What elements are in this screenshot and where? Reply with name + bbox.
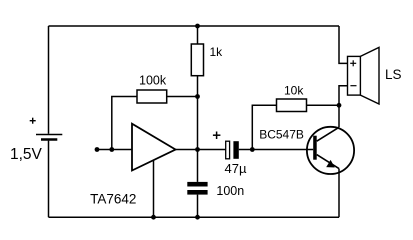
wire cap to base [239,149,313,151]
svg-text:BC547B: BC547B [259,128,304,142]
capacitor 47u left plate [226,141,230,159]
speaker LS cone [360,47,379,104]
wire bottom rail [49,216,340,218]
node base / 10k junction [250,147,255,152]
svg-text:47µ: 47µ [225,161,247,176]
wire input stub [97,149,132,151]
svg-text:LS: LS [385,67,402,82]
battery B1 plate short [41,138,57,141]
svg-text:10k: 10k [284,83,304,97]
speaker plus sign [350,60,356,66]
resistor 1k [191,44,203,76]
wire 10k right leg [307,104,340,106]
capacitor 100n top plate [187,182,207,187]
node collector / 10k / speaker junction [337,103,342,108]
transistor Q1 base bar [313,136,317,160]
wire left rail lower [48,141,50,218]
wire 10k left leg [252,105,276,149]
transistor Q1 emitter lead [317,155,339,169]
svg-text:100n: 100n [216,184,244,198]
transistor Q1 collector lead [317,127,339,141]
wire TA7642 ground pin [153,160,155,217]
speaker LS driver rectangle [348,56,361,95]
battery B1 plate long [36,134,62,136]
node amp output junction [195,147,200,152]
wire amp output [176,149,226,151]
node input terminal [95,147,100,152]
resistor 100k [137,90,167,103]
wire 100k left leg [112,97,137,150]
battery plus sign [30,118,36,124]
wire speaker bottom to collector junction [339,86,348,128]
svg-text:1k: 1k [210,45,224,59]
transistor Q1 emitter arrowhead [326,160,335,168]
svg-text:TA7642: TA7642 [90,192,136,207]
node 100k left / amp input junction [109,147,114,152]
wire center vertical top (rail to 1k) [197,26,199,44]
node amp ground at bottom rail [151,215,156,220]
wire speaker feed from top rail [339,26,348,63]
capacitor 47u plus sign [213,132,221,140]
resistor 10k [277,99,307,112]
wire right emitter rail [338,169,340,218]
svg-text:100k: 100k [139,74,167,88]
svg-text:1,5V: 1,5V [10,146,43,163]
node 100k right / 1k bottom junction [195,94,200,99]
wire left rail upper [48,26,50,134]
capacitor 100n bottom plate [187,190,207,195]
speaker minus sign [350,85,356,87]
wire center vertical (1k to 100n) [197,76,199,182]
capacitor 47u right plate [233,141,238,159]
wire center vertical bottom (100n to rail) [197,195,199,218]
op-amp U1 TA7642 triangle [132,124,176,171]
node 100n at bottom rail [195,215,200,220]
wire top rail [49,25,340,27]
wire 100k right leg [167,96,198,98]
transistor Q1 BC547B circle [307,127,354,174]
node top rail / 1k junction [195,24,200,29]
